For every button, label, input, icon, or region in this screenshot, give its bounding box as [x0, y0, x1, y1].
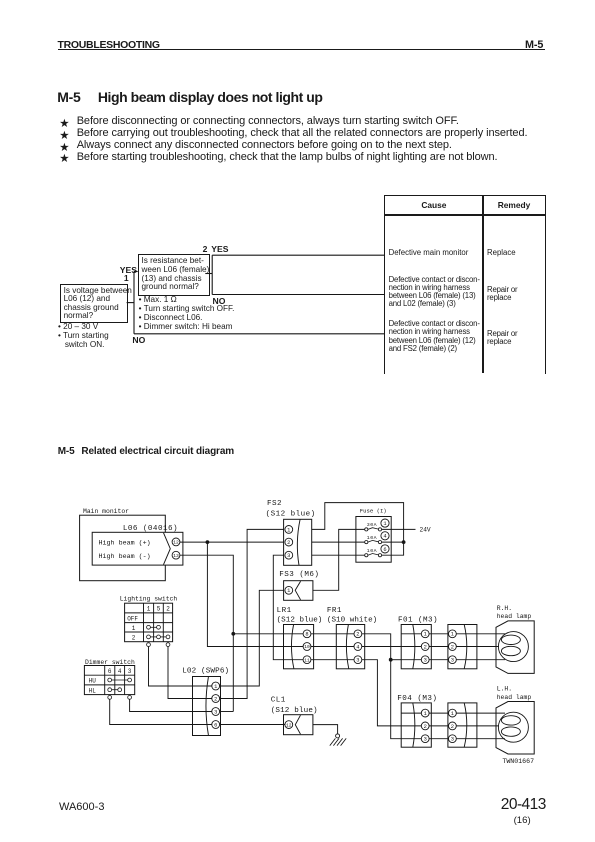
svg-text:2: 2	[451, 644, 454, 650]
svg-text:F04 (M3): F04 (M3)	[397, 695, 437, 703]
svg-text:(S12 blue): (S12 blue)	[271, 707, 318, 715]
svg-text:10: 10	[304, 644, 310, 650]
svg-text:24V: 24V	[420, 526, 431, 533]
svg-text:L02 (SWP6): L02 (SWP6)	[182, 668, 229, 676]
svg-text:1: 1	[287, 527, 290, 533]
svg-text:4: 4	[383, 534, 386, 540]
svg-text:TWN01667: TWN01667	[502, 758, 534, 765]
svg-text:LR1: LR1	[277, 607, 292, 615]
svg-text:FS3 (M6): FS3 (M6)	[279, 571, 319, 579]
svg-text:2: 2	[424, 644, 427, 650]
svg-text:R.H.: R.H.	[497, 605, 512, 612]
svg-text:4: 4	[356, 644, 359, 650]
svg-text:2: 2	[132, 634, 136, 641]
svg-text:4: 4	[118, 668, 122, 675]
svg-text:6: 6	[383, 547, 386, 553]
svg-text:12: 12	[286, 722, 292, 728]
svg-text:1: 1	[451, 711, 454, 717]
svg-text:1: 1	[424, 632, 427, 638]
svg-text:(S10 white): (S10 white)	[327, 617, 377, 625]
svg-text:2: 2	[214, 696, 217, 702]
svg-text:2: 2	[356, 632, 359, 638]
svg-text:2: 2	[287, 540, 290, 546]
svg-text:1: 1	[424, 711, 427, 717]
svg-text:5: 5	[157, 606, 161, 613]
svg-text:30A: 30A	[367, 522, 377, 528]
svg-text:1: 1	[383, 521, 386, 527]
svg-text:2: 2	[424, 724, 427, 730]
svg-text:head lamp: head lamp	[497, 694, 532, 701]
svg-text:3: 3	[356, 658, 359, 664]
svg-text:8: 8	[305, 632, 308, 638]
svg-text:13: 13	[173, 553, 179, 559]
svg-text:OFF: OFF	[127, 615, 138, 622]
svg-text:1: 1	[451, 632, 454, 638]
svg-text:3: 3	[424, 658, 427, 664]
svg-text:(S12 blue): (S12 blue)	[266, 511, 316, 519]
svg-text:CL1: CL1	[271, 696, 286, 704]
svg-text:10A: 10A	[367, 535, 377, 541]
svg-text:FS2: FS2	[267, 500, 282, 508]
svg-text:L06 (04016): L06 (04016)	[123, 525, 178, 533]
svg-text:2: 2	[166, 606, 170, 613]
svg-text:3: 3	[451, 658, 454, 664]
svg-text:1: 1	[287, 588, 290, 594]
svg-text:1: 1	[214, 684, 217, 690]
svg-text:12: 12	[173, 540, 179, 546]
svg-text:Dimmer switch: Dimmer switch	[85, 659, 135, 666]
svg-text:Fuse (I): Fuse (I)	[360, 508, 387, 515]
svg-text:High beam (+): High beam (+)	[99, 540, 151, 548]
svg-text:6: 6	[108, 668, 112, 675]
svg-text:High beam (-): High beam (-)	[99, 553, 151, 561]
svg-text:1: 1	[147, 606, 151, 613]
svg-text:F01 (M3): F01 (M3)	[398, 616, 438, 624]
svg-text:3: 3	[214, 709, 217, 715]
svg-text:3: 3	[424, 737, 427, 743]
svg-text:2: 2	[451, 724, 454, 730]
svg-text:Main monitor: Main monitor	[83, 508, 129, 515]
svg-text:HL: HL	[89, 687, 97, 694]
svg-text:HU: HU	[89, 678, 97, 685]
svg-text:11: 11	[304, 657, 310, 663]
svg-text:head lamp: head lamp	[497, 613, 532, 620]
svg-text:6: 6	[214, 722, 217, 728]
svg-text:(S12 blue): (S12 blue)	[277, 617, 323, 625]
svg-text:L.H.: L.H.	[497, 686, 512, 693]
svg-text:3: 3	[451, 737, 454, 743]
svg-text:1: 1	[132, 625, 136, 632]
svg-text:3: 3	[128, 668, 132, 675]
svg-text:10A: 10A	[367, 548, 377, 554]
svg-text:Lighting switch: Lighting switch	[120, 595, 178, 602]
svg-text:FR1: FR1	[327, 607, 342, 615]
svg-text:3: 3	[287, 553, 290, 559]
